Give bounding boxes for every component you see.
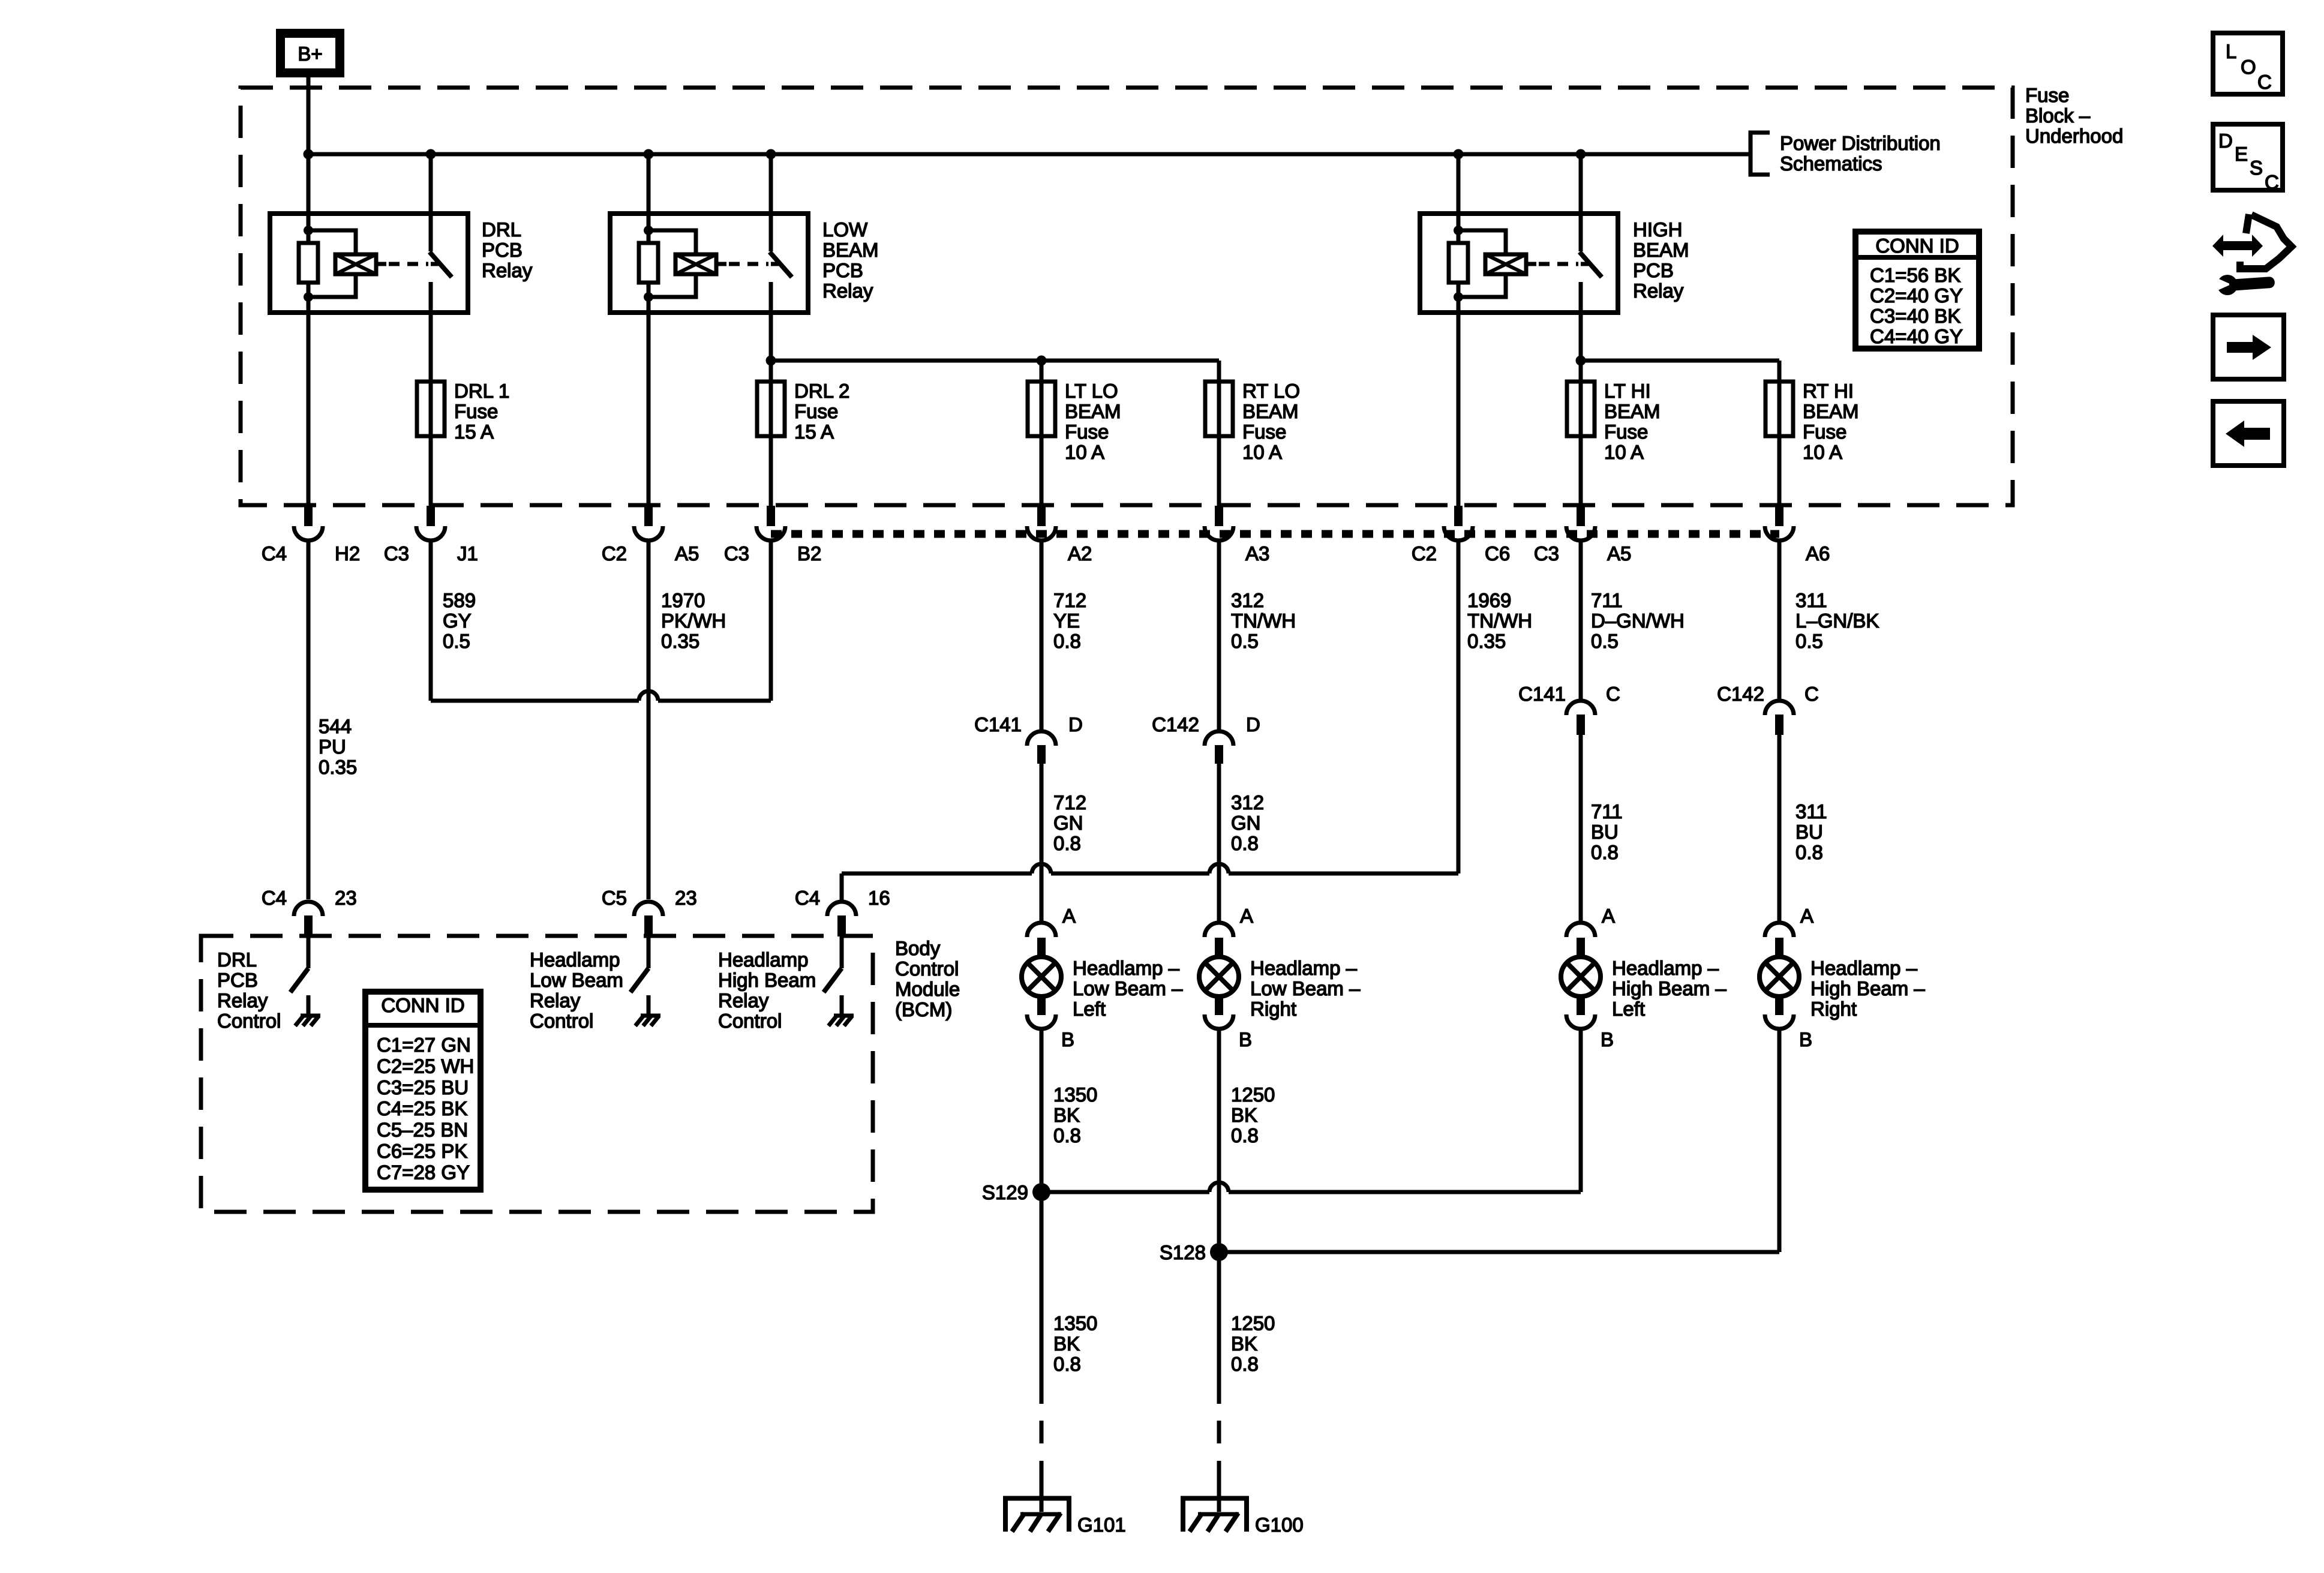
svg-text:10 A: 10 A (1242, 441, 1282, 463)
svg-text:B: B (1239, 1028, 1252, 1050)
svg-text:C: C (1804, 683, 1819, 705)
svg-text:0.8: 0.8 (1053, 1353, 1081, 1375)
svg-text:S128: S128 (1160, 1241, 1206, 1263)
svg-text:712: 712 (1053, 791, 1086, 813)
label connector C4 pin 16 (795, 887, 890, 909)
label connector C3 pin J1 (384, 542, 478, 565)
wire J1-B2 jumper (431, 541, 771, 701)
connector C4 pin H2 (294, 506, 323, 541)
svg-text:312: 312 (1231, 589, 1264, 611)
svg-text:Fuse: Fuse (794, 400, 838, 422)
svg-text:Power Distribution: Power Distribution (1780, 132, 1941, 154)
wire 311 L-GN/BK 0.5 (A6) (1779, 541, 1879, 701)
wire link to RT HI fuse (1581, 361, 1779, 382)
fuse LT LO BEAM 10A (1028, 382, 1055, 436)
switch DRL relay control driver (290, 936, 320, 1026)
label Headlamp High Beam Relay Control (718, 948, 816, 1032)
label connector C3 pin B2 (724, 542, 822, 565)
svg-text:Relay: Relay (217, 989, 268, 1011)
wire 712 GN 0.8 (1041, 764, 1086, 923)
svg-text:LT HI: LT HI (1604, 380, 1651, 402)
svg-text:Headlamp –: Headlamp – (1810, 957, 1918, 979)
ground G100 (1183, 1480, 1304, 1536)
svg-text:High Beam: High Beam (718, 969, 816, 991)
wire link to LT LO fuse (771, 359, 1041, 363)
connector C3 pin A5 right (1566, 506, 1595, 541)
label relay HIGH BEAM PCB (1633, 218, 1689, 302)
svg-text:L: L (2226, 40, 2236, 62)
svg-text:1970: 1970 (661, 589, 705, 611)
svg-text:High Beam –: High Beam – (1612, 977, 1727, 999)
svg-text:0.8: 0.8 (1231, 1124, 1259, 1146)
svg-text:Block –: Block – (2025, 104, 2091, 127)
label connector C1 pin A3 (1245, 542, 1269, 565)
wire 312 GN 0.8 (1219, 764, 1264, 923)
svg-text:D: D (1068, 713, 1083, 736)
svg-text:J1: J1 (457, 542, 478, 565)
label connector C2 pin A5 (602, 542, 699, 565)
svg-text:311: 311 (1795, 800, 1827, 822)
label pin B headlamp low beam left (1061, 1028, 1074, 1050)
svg-text:Low Beam: Low Beam (530, 969, 623, 991)
svg-text:C5–25 BN: C5–25 BN (377, 1119, 468, 1141)
svg-text:C2=25 WH: C2=25 WH (377, 1055, 474, 1077)
switch high beam relay control driver (824, 936, 854, 1026)
svg-text:D: D (1246, 713, 1260, 736)
svg-text:HIGH: HIGH (1633, 218, 1683, 241)
fuse RT LO BEAM 10A (1205, 382, 1233, 436)
label connector C3 pin A5 right (1534, 542, 1632, 565)
wire through fuse DRL 1 15A (429, 382, 433, 506)
svg-text:Right: Right (1810, 998, 1857, 1020)
svg-text:BK: BK (1231, 1104, 1257, 1126)
wire 589 GY 0.5 (J1) (431, 541, 476, 701)
svg-text:B: B (1061, 1028, 1074, 1050)
connector ID table (BCM) (365, 992, 481, 1190)
wire 312 TN/WH 0.5 (A3) (1219, 541, 1296, 731)
svg-text:C: C (1606, 683, 1620, 705)
svg-text:Control: Control (530, 1010, 593, 1032)
battery feed B+ symbol (281, 34, 340, 73)
svg-text:BK: BK (1053, 1104, 1080, 1126)
svg-text:Fuse: Fuse (1604, 421, 1648, 443)
svg-text:0.35: 0.35 (661, 630, 699, 652)
label pin A headlamp low beam right (1240, 905, 1253, 927)
wire bus to relay DRL PCB switch (429, 154, 433, 214)
wire 1350 BK 0.8 lower (1041, 1192, 1097, 1404)
icon LOC button (2213, 33, 2283, 94)
svg-text:C: C (2265, 171, 2279, 193)
wire DRL relay output to DRL1 fuse (429, 313, 433, 382)
svg-text:DRL: DRL (217, 948, 257, 971)
svg-text:C: C (2257, 71, 2272, 93)
svg-text:PCB: PCB (1633, 259, 1674, 281)
svg-text:A6: A6 (1806, 542, 1830, 565)
wire 544 PU 0.35 (H2) (308, 541, 357, 899)
label connector C1 pin A2 (1068, 542, 1092, 565)
node bus-LOW coil (644, 149, 654, 160)
wire BCM pin16 to high beam relay (1969) (842, 864, 1458, 902)
svg-text:C6: C6 (1485, 542, 1510, 565)
svg-text:C4=25 BK: C4=25 BK (377, 1097, 467, 1119)
svg-text:10 A: 10 A (1065, 441, 1104, 463)
wire 1250 BK 0.8 upper (1219, 1029, 1275, 1252)
wire 712 YE 0.8 (A2) (1041, 541, 1086, 731)
svg-text:C142: C142 (1717, 683, 1764, 705)
node DRL2-lowbeam link (766, 356, 776, 366)
headlamp low beam right (1199, 923, 1239, 1029)
connector C5 pin 23 (634, 902, 663, 936)
svg-text:E: E (2235, 143, 2248, 165)
svg-text:1969: 1969 (1467, 589, 1511, 611)
svg-text:0.8: 0.8 (1231, 1353, 1259, 1375)
connector C3 pin B2 (756, 506, 785, 541)
label fuse RT HI BEAM 10A (1803, 380, 1859, 463)
svg-text:10 A: 10 A (1803, 441, 1842, 463)
splice S129 (982, 1181, 1050, 1203)
wire through fuse LT HI BEAM 10A (1579, 382, 1583, 506)
svg-text:A: A (1062, 905, 1076, 927)
svg-text:DRL 2: DRL 2 (794, 380, 849, 402)
svg-text:TN/WH: TN/WH (1467, 610, 1532, 632)
svg-text:Headlamp –: Headlamp – (1250, 957, 1358, 979)
wire DRL coil to connector H2 (307, 313, 311, 506)
wire B+ to bus (307, 77, 311, 154)
svg-text:0.8: 0.8 (1231, 832, 1259, 854)
svg-text:0.8: 0.8 (1053, 832, 1081, 854)
label DRL PCB Relay Control (217, 948, 281, 1032)
svg-text:High Beam –: High Beam – (1810, 977, 1925, 999)
headlamp high beam left (1561, 923, 1601, 1029)
connector C142 pin D (1152, 713, 1260, 764)
svg-text:A2: A2 (1068, 542, 1092, 565)
svg-text:C3: C3 (1534, 542, 1559, 565)
svg-text:DRL: DRL (482, 218, 521, 241)
svg-text:Headlamp: Headlamp (718, 948, 808, 971)
label Power Distribution Schematics (1780, 132, 1941, 175)
label fuse LT LO BEAM 10A (1065, 380, 1121, 463)
svg-text:0.8: 0.8 (1591, 841, 1619, 863)
label pin B headlamp low beam right (1239, 1028, 1252, 1050)
wire dashed lead to G100 (1217, 1421, 1221, 1480)
fuse DRL 2 15A (757, 382, 785, 436)
connector C4 pin 23 (294, 902, 323, 936)
svg-text:H2: H2 (335, 542, 360, 565)
svg-text:C4=40 GY: C4=40 GY (1870, 325, 1963, 347)
wire 1250 BK 0.8 lower (1219, 1252, 1275, 1404)
svg-text:C7=28 GY: C7=28 GY (377, 1161, 470, 1183)
svg-text:Headlamp: Headlamp (530, 948, 620, 971)
svg-text:589: 589 (443, 589, 476, 611)
label Fuse Block - Underhood (2025, 84, 2123, 147)
svg-text:C142: C142 (1152, 713, 1199, 736)
fuse DRL 1 15A (417, 382, 445, 436)
fuse block - underhood enclosure (dashed) (241, 88, 2013, 505)
node bus-DRL coil (304, 149, 314, 160)
connector C1 pin A2 (1027, 506, 1056, 541)
svg-text:GN: GN (1231, 812, 1261, 834)
svg-text:Headlamp –: Headlamp – (1612, 957, 1719, 979)
connector C1 pin A6 (1765, 506, 1794, 541)
svg-text:Right: Right (1250, 998, 1296, 1020)
svg-text:PCB: PCB (217, 969, 258, 991)
svg-text:C141: C141 (1518, 683, 1566, 705)
svg-text:C4: C4 (795, 887, 820, 909)
svg-text:Headlamp –: Headlamp – (1073, 957, 1180, 979)
svg-text:C4: C4 (262, 887, 287, 909)
label fuse DRL 1 15A (454, 380, 509, 443)
wire 1970 PK/WH 0.35 (A5) (648, 541, 726, 899)
connector C2 pin C6 (1444, 506, 1473, 541)
icon DESC button (2213, 124, 2283, 193)
svg-text:712: 712 (1053, 589, 1086, 611)
label headlamp low beam left (1073, 957, 1183, 1020)
label connector C4 pin 23 (262, 887, 357, 909)
wire S128 link (1219, 1250, 1779, 1254)
svg-text:D: D (2218, 130, 2233, 152)
label fuse RT LO BEAM 10A (1242, 380, 1300, 463)
svg-text:BEAM: BEAM (1633, 239, 1689, 261)
svg-text:A5: A5 (1607, 542, 1631, 565)
svg-text:DRL 1: DRL 1 (454, 380, 509, 402)
svg-text:A: A (1240, 905, 1253, 927)
label pin A headlamp high beam right (1800, 905, 1813, 927)
svg-text:Control: Control (217, 1010, 281, 1032)
svg-text:A3: A3 (1245, 542, 1269, 565)
svg-text:0.5: 0.5 (1591, 630, 1619, 652)
svg-text:Low Beam –: Low Beam – (1073, 977, 1183, 999)
svg-text:G101: G101 (1077, 1514, 1126, 1536)
node high beam link (1576, 356, 1586, 366)
svg-text:15 A: 15 A (454, 421, 494, 443)
svg-text:311: 311 (1795, 589, 1827, 611)
svg-text:PU: PU (319, 736, 346, 758)
svg-text:Body: Body (895, 937, 941, 959)
wire through fuse LT LO BEAM 10A (1040, 382, 1044, 506)
svg-text:Low Beam –: Low Beam – (1250, 977, 1361, 999)
power distribution schematics bracket (1750, 133, 1770, 175)
fuse LT HI BEAM 10A (1567, 382, 1595, 436)
svg-text:312: 312 (1231, 791, 1264, 813)
svg-text:0.5: 0.5 (1795, 630, 1823, 652)
svg-text:544: 544 (319, 715, 352, 737)
svg-text:C6=25 PK: C6=25 PK (377, 1140, 467, 1162)
svg-text:Relay: Relay (822, 280, 873, 302)
svg-text:C5: C5 (602, 887, 627, 909)
icon back arrow button (2213, 401, 2284, 466)
svg-text:O: O (2241, 56, 2256, 78)
svg-text:S: S (2250, 157, 2263, 179)
label relay DRL PCB (482, 218, 533, 281)
svg-text:C3=40 BK: C3=40 BK (1870, 305, 1960, 327)
svg-text:(BCM): (BCM) (895, 998, 952, 1020)
svg-text:Control: Control (895, 957, 959, 980)
fuse RT HI BEAM 10A (1765, 382, 1793, 436)
switch low beam relay control driver (630, 936, 660, 1026)
svg-text:LT LO: LT LO (1065, 380, 1118, 402)
svg-text:C2: C2 (602, 542, 627, 565)
label pin A headlamp low beam left (1062, 905, 1076, 927)
svg-text:Fuse: Fuse (2025, 84, 2069, 106)
label Headlamp Low Beam Relay Control (530, 948, 623, 1032)
svg-text:0.35: 0.35 (1467, 630, 1506, 652)
svg-text:YE: YE (1053, 610, 1080, 632)
connector C2 pin A5 (634, 506, 663, 541)
svg-text:GY: GY (443, 610, 472, 632)
node bus-LOW switch (766, 149, 776, 160)
svg-text:1250: 1250 (1231, 1312, 1275, 1334)
wire link to RT LO fuse (1041, 361, 1219, 382)
label connector C1 pin A6 (1806, 542, 1830, 565)
connector C3 pin J1 (416, 506, 445, 541)
svg-text:A: A (1602, 905, 1615, 927)
svg-text:BEAM: BEAM (1803, 400, 1859, 422)
svg-text:0.8: 0.8 (1053, 630, 1081, 652)
svg-text:BK: BK (1231, 1332, 1257, 1355)
label fuse LT HI BEAM 10A (1604, 380, 1661, 463)
svg-text:Fuse: Fuse (1242, 421, 1286, 443)
wire 711 BU 0.8 (1581, 735, 1623, 923)
wire LOW coil to connector A5 (647, 313, 651, 506)
svg-text:Underhood: Underhood (2025, 125, 2123, 147)
label headlamp low beam right (1250, 957, 1361, 1020)
wire bus to relay LOW BEAM PCB switch (769, 154, 773, 214)
svg-text:B2: B2 (797, 542, 821, 565)
svg-text:C3: C3 (384, 542, 409, 565)
svg-text:D–GN/WH: D–GN/WH (1591, 610, 1685, 632)
svg-text:BEAM: BEAM (1242, 400, 1299, 422)
wire bus to relay HIGH BEAM PCB switch (1579, 154, 1583, 214)
svg-text:C2=40 GY: C2=40 GY (1870, 284, 1963, 307)
svg-text:Fuse: Fuse (454, 400, 498, 422)
svg-text:C1=56 BK: C1=56 BK (1870, 264, 1960, 286)
node bus-HIGH coil (1454, 149, 1464, 160)
svg-text:Relay: Relay (530, 989, 581, 1011)
svg-text:BEAM: BEAM (1065, 400, 1121, 422)
svg-text:15 A: 15 A (794, 421, 834, 443)
wire HIGH coil to connector C6 (1457, 313, 1461, 506)
svg-text:BU: BU (1795, 821, 1823, 843)
svg-text:BU: BU (1591, 821, 1619, 843)
svg-text:B+: B+ (298, 43, 322, 65)
wire bus to relay DRL PCB coil (307, 154, 311, 214)
wire bus to relay LOW BEAM PCB coil (647, 154, 651, 214)
svg-text:Relay: Relay (1633, 280, 1684, 302)
svg-text:Module: Module (895, 978, 960, 1000)
wire S129 crossover (1041, 1182, 1581, 1192)
svg-text:711: 711 (1591, 800, 1623, 822)
wire 311 BU 0.8 (1779, 735, 1827, 923)
svg-text:A: A (1800, 905, 1813, 927)
svg-text:C141: C141 (974, 713, 1022, 736)
svg-text:Schematics: Schematics (1780, 152, 1882, 175)
svg-text:A5: A5 (675, 542, 699, 565)
wire through fuse DRL 2 15A (769, 382, 773, 506)
svg-text:1350: 1350 (1053, 1083, 1097, 1106)
label pin B headlamp high beam right (1799, 1028, 1812, 1050)
svg-text:PK/WH: PK/WH (661, 610, 726, 632)
svg-text:GN: GN (1053, 812, 1083, 834)
svg-text:23: 23 (335, 887, 357, 909)
label fuse DRL 2 15A (794, 380, 849, 443)
label connector C5 pin 23 (602, 887, 697, 909)
connector C142 pin C (1717, 683, 1819, 735)
wire high-beam-left lamp ground (1579, 1029, 1583, 1192)
wire 1350 BK 0.8 upper (1041, 1029, 1097, 1192)
svg-text:C3=25 BU: C3=25 BU (377, 1076, 469, 1098)
wire HIGH relay output to LT HI fuse (1579, 313, 1583, 382)
svg-text:711: 711 (1591, 589, 1623, 611)
svg-text:1250: 1250 (1231, 1083, 1275, 1106)
label headlamp high beam right (1810, 957, 1925, 1020)
svg-text:Relay: Relay (482, 259, 533, 281)
connector ID table (fuse block) (1855, 232, 1979, 349)
svg-text:CONN ID: CONN ID (381, 994, 464, 1016)
svg-text:CONN ID: CONN ID (1875, 235, 1959, 257)
label relay LOW BEAM PCB (822, 218, 879, 302)
wire through fuse RT HI BEAM 10A (1777, 382, 1782, 506)
label connector C4 pin H2 (262, 542, 360, 565)
icon connector repair (wrench) (2214, 275, 2275, 295)
node bus-DRL switch (426, 149, 436, 160)
label connector C2 pin C6 (1412, 542, 1510, 565)
svg-text:1350: 1350 (1053, 1312, 1097, 1334)
svg-text:PCB: PCB (822, 259, 863, 281)
wire dashed lead to G101 (1040, 1421, 1044, 1480)
svg-text:PCB: PCB (482, 239, 523, 261)
svg-text:0.5: 0.5 (1231, 630, 1259, 652)
svg-text:16: 16 (868, 887, 890, 909)
svg-text:BEAM: BEAM (822, 239, 879, 261)
label pin B headlamp high beam left (1601, 1028, 1614, 1050)
connector C141 pin C (1518, 683, 1620, 735)
svg-text:Fuse: Fuse (1065, 421, 1109, 443)
svg-text:10 A: 10 A (1604, 441, 1644, 463)
svg-text:0.5: 0.5 (443, 630, 470, 652)
svg-text:B: B (1601, 1028, 1614, 1050)
svg-text:0.35: 0.35 (319, 756, 357, 778)
svg-text:G100: G100 (1255, 1514, 1304, 1536)
svg-text:Left: Left (1612, 998, 1645, 1020)
svg-text:RT HI: RT HI (1803, 380, 1854, 402)
connector C1 dotted harness line (771, 530, 1779, 538)
svg-text:B: B (1799, 1028, 1812, 1050)
label pin A headlamp high beam left (1602, 905, 1615, 927)
label Body Control Module (BCM) (895, 937, 960, 1020)
wire bus to relay HIGH BEAM PCB coil (1457, 154, 1461, 214)
svg-text:BEAM: BEAM (1604, 400, 1661, 422)
body control module enclosure (dashed) (201, 936, 873, 1212)
svg-text:RT LO: RT LO (1242, 380, 1300, 402)
icon connector repair (double arrow) (2212, 235, 2263, 257)
node LT LO fuse tap (1037, 356, 1047, 366)
power bus wire (308, 152, 1750, 157)
svg-text:Control: Control (718, 1010, 782, 1032)
svg-text:Left: Left (1073, 998, 1106, 1020)
node bus-HIGH switch (1576, 149, 1586, 160)
wire 711 D-GN/WH 0.5 (A5) (1581, 541, 1685, 701)
ground G101 (1005, 1480, 1126, 1536)
icon connector repair (wire outline) (2240, 214, 2292, 269)
svg-text:BK: BK (1053, 1332, 1080, 1355)
svg-text:S129: S129 (982, 1181, 1028, 1203)
svg-text:23: 23 (675, 887, 697, 909)
svg-text:C3: C3 (724, 542, 749, 565)
svg-text:C2: C2 (1412, 542, 1437, 565)
svg-text:C1=27 GN: C1=27 GN (377, 1034, 471, 1056)
headlamp high beam right (1759, 923, 1799, 1029)
svg-text:Fuse: Fuse (1803, 421, 1846, 443)
